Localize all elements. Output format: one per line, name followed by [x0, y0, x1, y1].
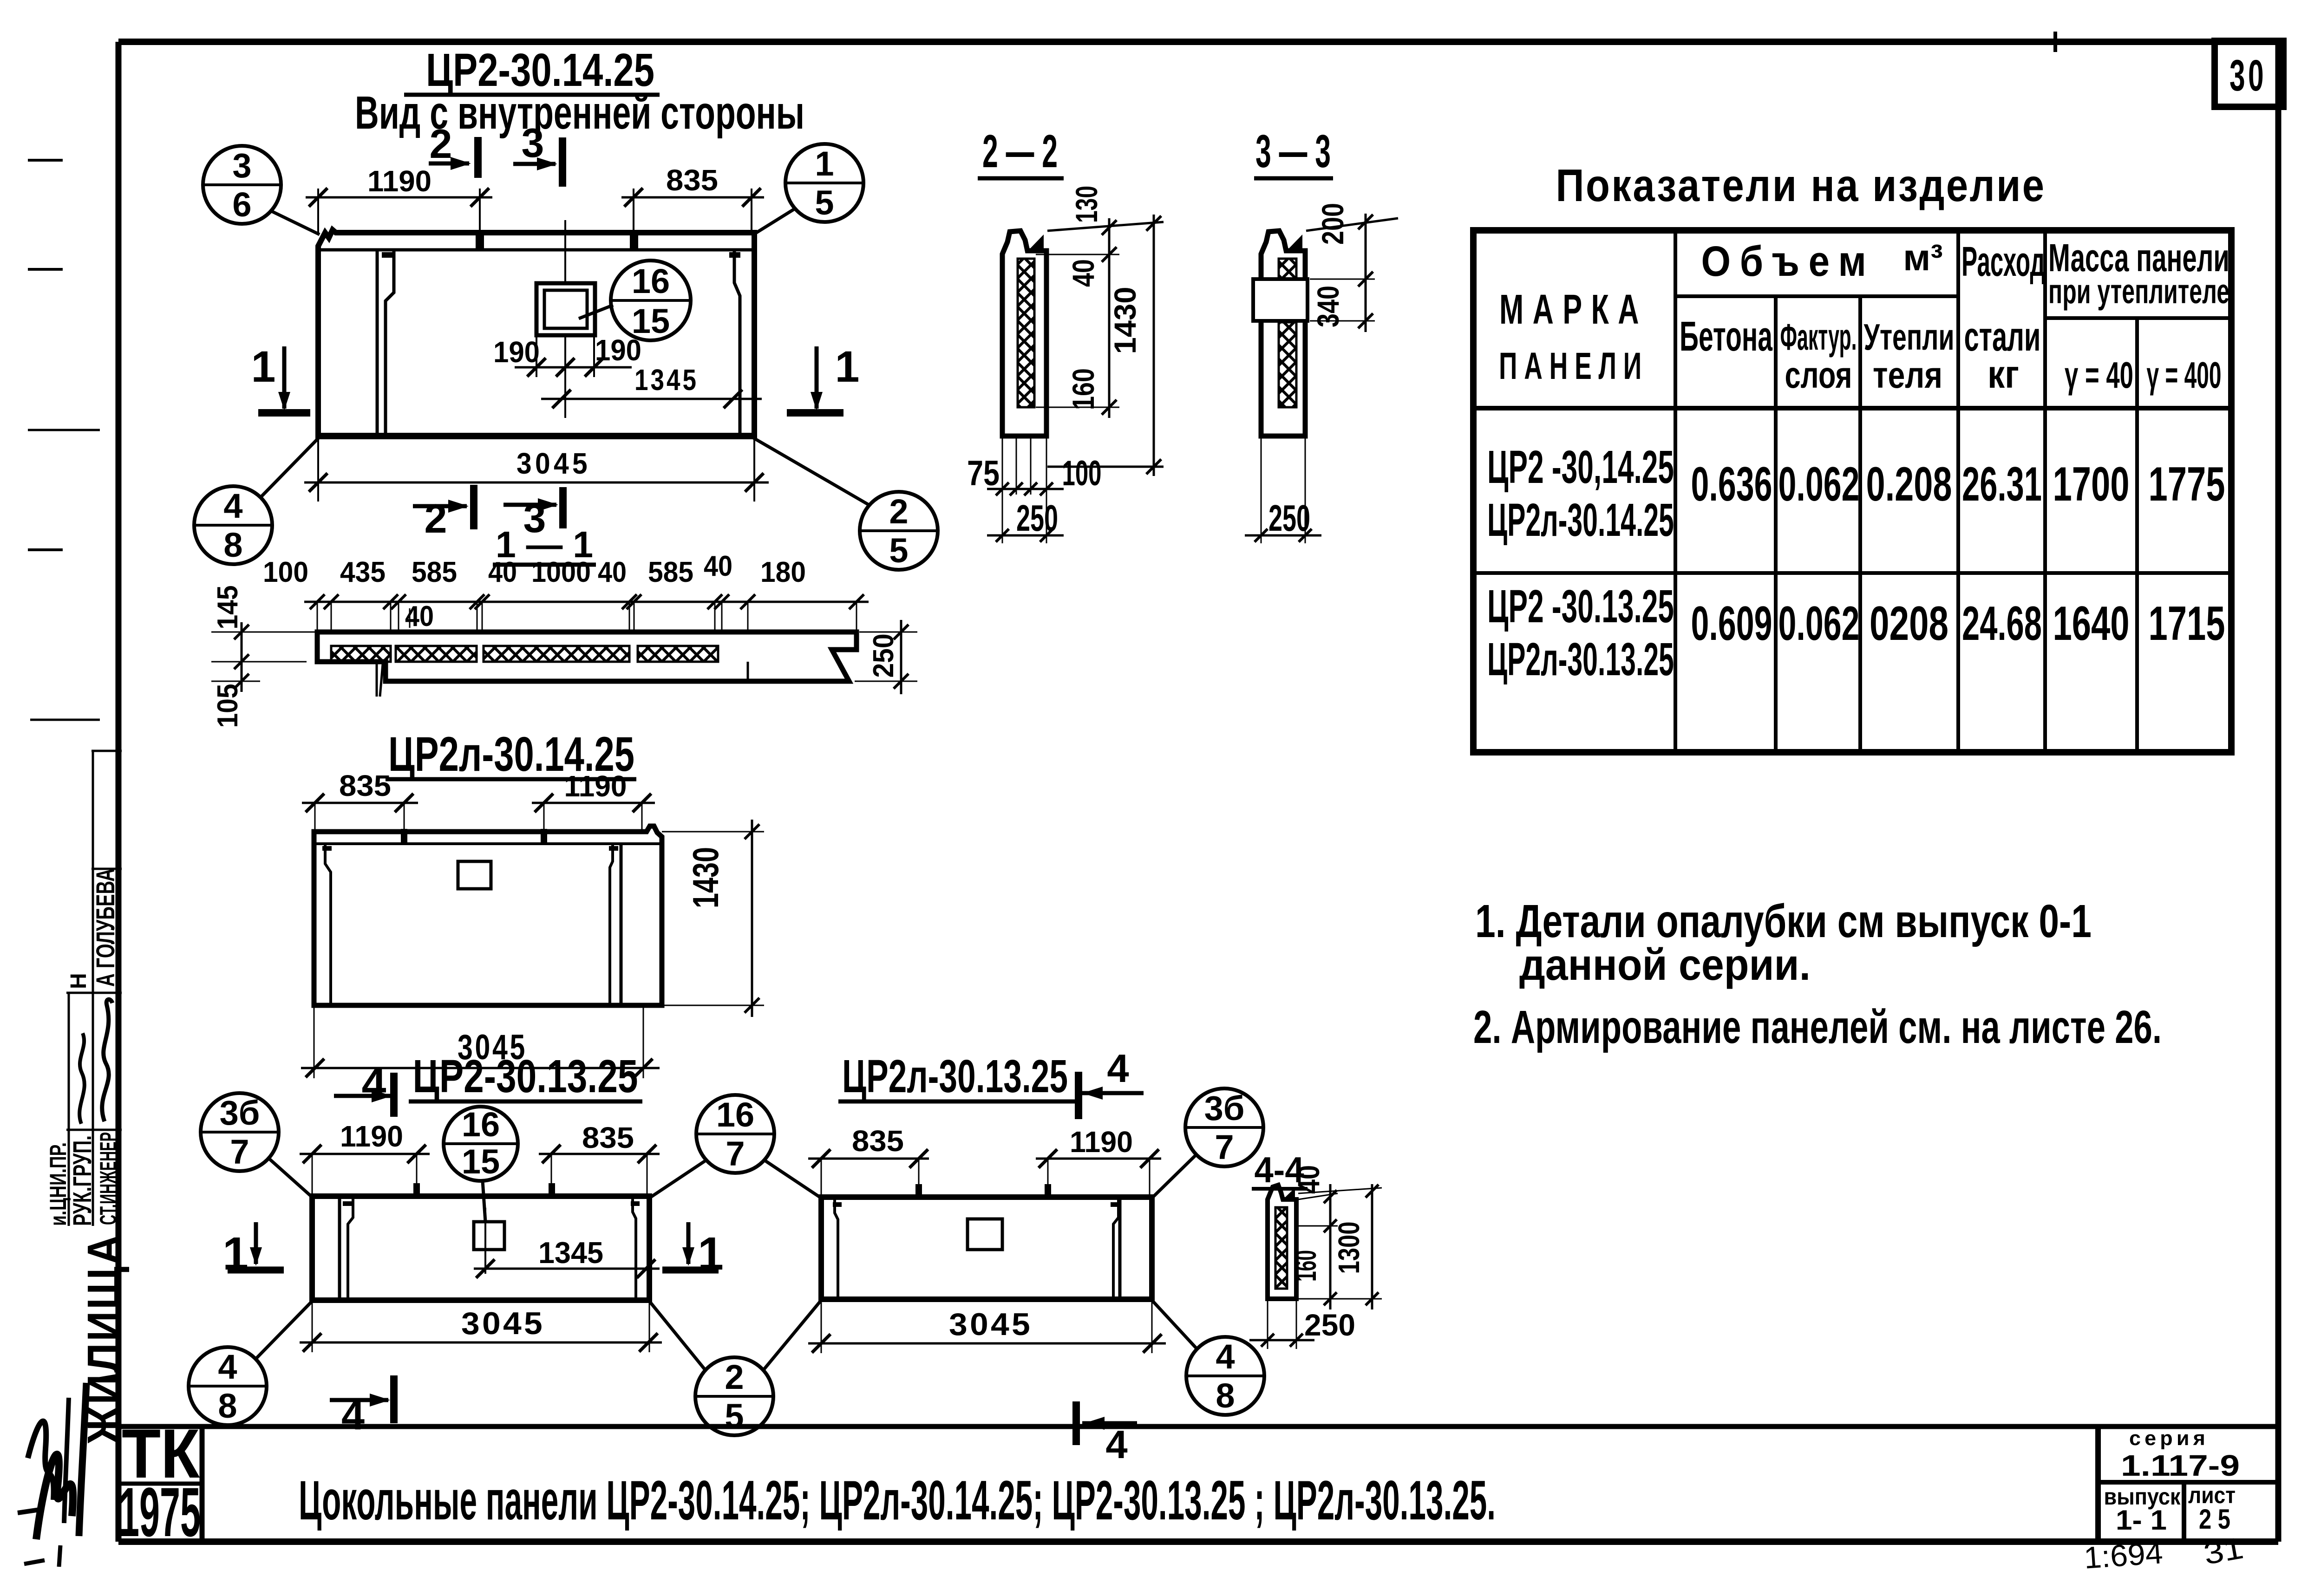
svg-text:250: 250	[1268, 497, 1310, 539]
svg-text:6: 6	[232, 185, 251, 224]
svg-text:835: 835	[666, 163, 718, 197]
svg-text:1345: 1345	[538, 1236, 603, 1270]
svg-text:Объем: Объем	[1701, 238, 1876, 285]
svg-text:4: 4	[1107, 1047, 1129, 1091]
svg-text:7: 7	[230, 1133, 249, 1171]
svg-text:при утеплителе: при утеплителе	[2048, 272, 2229, 311]
svg-text:1000: 1000	[531, 556, 591, 588]
svg-text:40: 40	[598, 556, 627, 588]
svg-text:2: 2	[425, 495, 447, 541]
svg-text:1: 1	[815, 144, 834, 183]
svg-text:ПАНЕЛИ: ПАНЕЛИ	[1499, 345, 1648, 387]
svg-text:1640: 1640	[2053, 597, 2130, 651]
svg-text:1300: 1300	[1332, 1222, 1366, 1274]
svg-text:15: 15	[462, 1142, 500, 1181]
svg-text:160: 160	[1289, 1250, 1322, 1282]
svg-text:1715: 1715	[2149, 597, 2225, 651]
svg-text:75: 75	[967, 454, 1000, 493]
svg-text:8: 8	[223, 526, 242, 564]
svg-text:5: 5	[889, 531, 908, 570]
svg-text:0.636: 0.636	[1691, 457, 1772, 511]
svg-text:ЦР2л-30.13.25: ЦР2л-30.13.25	[1487, 633, 1674, 685]
svg-text:1. Детали опалубки см выпу: 1. Детали опалубки см выпуск 0-1	[1475, 895, 2092, 947]
svg-text:1430: 1430	[1108, 287, 1142, 354]
svg-text:МАРКА: МАРКА	[1499, 287, 1648, 333]
svg-text:слоя: слоя	[1785, 354, 1852, 396]
svg-text:2: 2	[430, 121, 452, 167]
svg-text:835: 835	[339, 769, 391, 802]
svg-text:40: 40	[704, 550, 732, 582]
svg-text:1: 1	[251, 342, 276, 391]
svg-text:Цокольные панели ЦР2-30.14.2: Цокольные панели ЦР2-30.14.25; ЦР2л-30.1…	[299, 1469, 1496, 1531]
svg-text:1: 1	[835, 342, 860, 391]
svg-text:2. Армирование панелей см.: 2. Армирование панелей см. на листе 26.	[1473, 1001, 2162, 1053]
svg-text:26.31: 26.31	[1962, 457, 2042, 511]
svg-text:15: 15	[632, 302, 670, 340]
svg-text:100: 100	[1062, 454, 1102, 493]
svg-text:24.68: 24.68	[1962, 597, 2042, 651]
svg-text:3045: 3045	[517, 447, 591, 480]
svg-text:160: 160	[1066, 368, 1100, 410]
svg-text:250: 250	[868, 634, 900, 678]
svg-text:100: 100	[263, 556, 308, 588]
svg-text:31: 31	[2201, 1531, 2246, 1571]
svg-text:и.ЦНИ.ПР.: и.ЦНИ.ПР.	[45, 1142, 71, 1226]
svg-text:Показатели на изделие: Показатели на изделие	[1556, 160, 2046, 211]
svg-text:3б: 3б	[1204, 1089, 1245, 1127]
svg-text:РУК.ГРУП.: РУК.ГРУП.	[67, 1135, 97, 1226]
svg-text:1190: 1190	[367, 164, 432, 198]
svg-text:γ = 400: γ = 400	[2147, 354, 2222, 396]
svg-text:835: 835	[852, 1124, 904, 1158]
svg-text:1- 1: 1- 1	[2116, 1505, 2167, 1536]
svg-text:7: 7	[1215, 1128, 1234, 1166]
svg-text:180: 180	[760, 556, 806, 588]
svg-text:м³: м³	[1903, 237, 1943, 278]
svg-text:0.062: 0.062	[1778, 457, 1860, 511]
svg-text:1345: 1345	[634, 363, 699, 397]
svg-text:кг: кг	[1988, 352, 2019, 396]
svg-text:40: 40	[488, 556, 517, 588]
svg-text:585: 585	[648, 556, 693, 588]
svg-text:3 — 3: 3 — 3	[1255, 125, 1331, 177]
svg-text:Утепли: Утепли	[1864, 316, 1955, 358]
svg-text:1430: 1430	[685, 847, 726, 908]
svg-text:1775: 1775	[2149, 457, 2225, 511]
svg-text:1190: 1190	[340, 1120, 403, 1153]
svg-text:2: 2	[725, 1358, 744, 1396]
svg-text:835: 835	[582, 1121, 634, 1154]
svg-text:435: 435	[340, 556, 386, 588]
svg-text:1:694: 1:694	[2083, 1535, 2164, 1575]
svg-text:1190: 1190	[564, 769, 627, 803]
svg-text:8: 8	[1216, 1376, 1235, 1415]
svg-text:ЦР2л-30.13.25: ЦР2л-30.13.25	[842, 1050, 1068, 1102]
svg-text:0.609: 0.609	[1691, 597, 1772, 651]
svg-text:ЦР2л-30.14.25: ЦР2л-30.14.25	[1487, 494, 1674, 546]
svg-text:3б: 3б	[220, 1094, 260, 1132]
svg-text:0208: 0208	[1870, 597, 1948, 651]
svg-text:2 5: 2 5	[2199, 1504, 2230, 1535]
svg-text:250: 250	[1016, 497, 1058, 539]
svg-text:200: 200	[1315, 203, 1350, 245]
svg-text:145: 145	[212, 586, 244, 630]
svg-text:Расход: Расход	[1961, 239, 2045, 285]
svg-text:30: 30	[2229, 51, 2267, 100]
svg-text:1975: 1975	[119, 1473, 201, 1551]
svg-text:2 — 2: 2 — 2	[982, 125, 1058, 177]
svg-text:7: 7	[726, 1134, 745, 1173]
svg-text:340: 340	[1311, 286, 1345, 327]
svg-text:1.117-9: 1.117-9	[2121, 1449, 2240, 1482]
svg-text:16: 16	[462, 1105, 500, 1144]
svg-text:40: 40	[1066, 259, 1100, 287]
svg-text:А ГОЛУБЕВА: А ГОЛУБЕВА	[91, 868, 120, 987]
svg-text:4: 4	[218, 1348, 237, 1386]
svg-text:250: 250	[1304, 1308, 1355, 1342]
svg-text:теля: теля	[1873, 354, 1942, 396]
svg-text:1190: 1190	[1070, 1125, 1133, 1159]
svg-text:Бетона: Бетона	[1680, 313, 1773, 360]
svg-text:данной серии.: данной серии.	[1519, 940, 1811, 990]
svg-text:γ = 40: γ = 40	[2065, 354, 2133, 396]
svg-text:ЦР2 -30.13.25: ЦР2 -30.13.25	[1487, 580, 1674, 632]
svg-text:3045: 3045	[461, 1306, 545, 1341]
svg-text:4: 4	[223, 487, 242, 525]
svg-text:СТ.ИНЖЕНЕР: СТ.ИНЖЕНЕР	[95, 1132, 121, 1225]
svg-text:1700: 1700	[2053, 457, 2130, 511]
svg-text:серия: серия	[2129, 1427, 2209, 1450]
svg-text:16: 16	[632, 262, 670, 300]
svg-text:4: 4	[1105, 1423, 1127, 1467]
svg-text:4: 4	[1216, 1337, 1235, 1376]
svg-text:40: 40	[1291, 1165, 1326, 1194]
svg-text:0.062: 0.062	[1778, 597, 1860, 651]
svg-text:ЦР2 -30,14.25: ЦР2 -30,14.25	[1487, 441, 1674, 493]
svg-text:2: 2	[889, 492, 908, 531]
svg-text:Фактур.: Фактур.	[1780, 316, 1857, 358]
svg-text:5: 5	[815, 183, 834, 222]
svg-text:16: 16	[716, 1095, 754, 1134]
svg-text:8: 8	[218, 1387, 237, 1425]
svg-text:Вид с внутренней стороны: Вид с внутренней стороны	[355, 87, 804, 139]
svg-text:0.208: 0.208	[1866, 457, 1952, 511]
svg-text:Н: Н	[66, 973, 91, 989]
svg-text:5: 5	[725, 1397, 744, 1435]
svg-text:585: 585	[412, 556, 457, 588]
svg-text:3045: 3045	[949, 1307, 1033, 1342]
svg-text:ЦР2-30.13.25: ЦР2-30.13.25	[413, 1050, 638, 1102]
svg-text:190: 190	[493, 335, 540, 369]
svg-text:105: 105	[212, 684, 244, 728]
svg-text:130: 130	[1069, 186, 1104, 223]
svg-text:3: 3	[232, 146, 251, 185]
